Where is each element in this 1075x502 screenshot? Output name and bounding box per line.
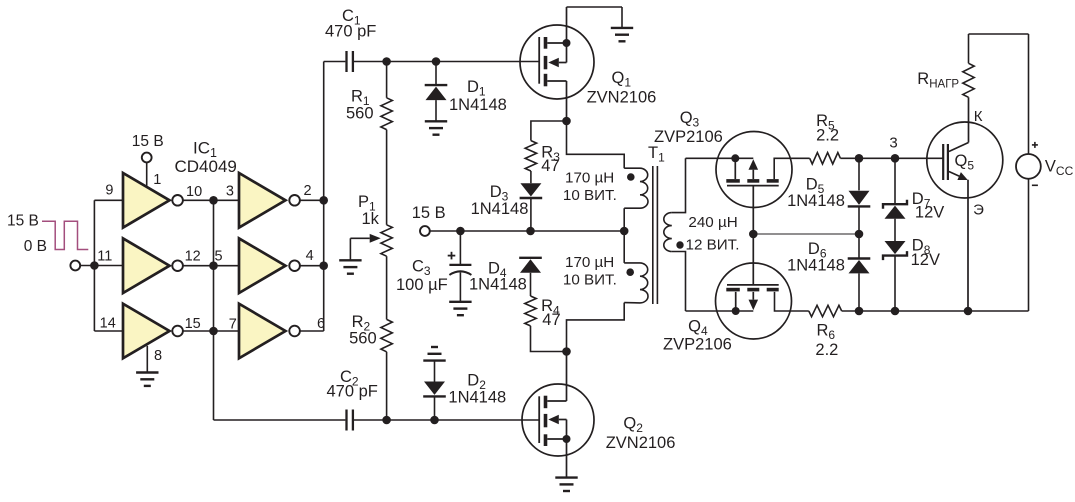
svg-text:14: 14 — [100, 316, 116, 332]
svg-text:11: 11 — [97, 249, 112, 265]
svg-text:5: 5 — [215, 249, 223, 265]
svg-text:8: 8 — [154, 348, 162, 364]
svg-text:ZVN2106: ZVN2106 — [606, 434, 676, 452]
svg-text:12 ВИТ.: 12 ВИТ. — [686, 237, 740, 254]
svg-text:3: 3 — [226, 183, 234, 199]
svg-text:4: 4 — [306, 248, 314, 264]
svg-text:1k: 1k — [362, 210, 380, 228]
svg-text:12: 12 — [185, 249, 201, 265]
svg-text:1N4148: 1N4148 — [471, 200, 529, 218]
svg-text:2.2: 2.2 — [816, 127, 839, 145]
svg-text:15 В: 15 В — [7, 212, 39, 229]
svg-text:10 ВИТ.: 10 ВИТ. — [563, 187, 617, 204]
svg-text:К: К — [974, 108, 983, 125]
svg-text:170 µH: 170 µH — [565, 254, 614, 271]
svg-text:1N4148: 1N4148 — [449, 96, 507, 114]
svg-text:47: 47 — [542, 311, 560, 329]
svg-text:47: 47 — [541, 157, 559, 175]
svg-text:6: 6 — [317, 316, 325, 332]
svg-text:240 µH: 240 µH — [688, 214, 737, 231]
svg-text:12V: 12V — [915, 204, 944, 222]
svg-text:ZVN2106: ZVN2106 — [587, 88, 657, 106]
svg-text:10 ВИТ.: 10 ВИТ. — [563, 271, 617, 288]
svg-text:15 В: 15 В — [132, 133, 164, 150]
svg-text:100 µF: 100 µF — [396, 276, 448, 294]
svg-text:560: 560 — [346, 105, 374, 123]
svg-text:0 В: 0 В — [24, 238, 47, 255]
svg-text:9: 9 — [105, 183, 113, 199]
svg-text:470 pF: 470 pF — [325, 23, 376, 41]
svg-text:2: 2 — [304, 183, 312, 199]
svg-text:ZVP2106: ZVP2106 — [663, 336, 732, 354]
svg-text:15: 15 — [185, 316, 201, 332]
svg-text:12V: 12V — [911, 251, 940, 269]
svg-text:Э: Э — [973, 202, 984, 219]
svg-text:1: 1 — [153, 172, 161, 188]
svg-text:470 pF: 470 pF — [327, 383, 378, 401]
svg-text:7: 7 — [229, 316, 237, 332]
svg-text:CD4049: CD4049 — [175, 157, 237, 176]
svg-text:560: 560 — [349, 330, 377, 348]
svg-text:1N4148: 1N4148 — [448, 389, 506, 407]
svg-text:3: 3 — [889, 135, 897, 152]
svg-text:170 µH: 170 µH — [565, 169, 614, 186]
svg-text:ZVP2106: ZVP2106 — [654, 128, 723, 146]
svg-text:2.2: 2.2 — [815, 341, 838, 359]
svg-text:1N4148: 1N4148 — [469, 276, 527, 294]
svg-text:10: 10 — [186, 184, 202, 200]
svg-text:1N4148: 1N4148 — [787, 192, 845, 210]
svg-text:15 В: 15 В — [412, 204, 446, 222]
svg-text:1N4148: 1N4148 — [787, 257, 845, 275]
